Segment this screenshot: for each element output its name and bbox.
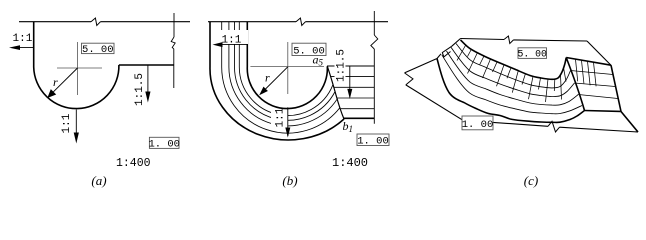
svg-text:(b): (b) <box>282 173 297 188</box>
svg-text:1:1: 1:1 <box>13 33 33 45</box>
svg-text:5. 00: 5. 00 <box>293 46 325 58</box>
svg-text:5. 00: 5. 00 <box>82 44 114 56</box>
svg-text:1:400: 1:400 <box>332 156 368 170</box>
svg-text:5. 00: 5. 00 <box>517 49 547 60</box>
svg-text:r: r <box>53 75 58 89</box>
svg-text:1:1: 1:1 <box>274 107 286 127</box>
svg-text:1:1.5: 1:1.5 <box>336 49 348 82</box>
svg-text:(c): (c) <box>524 173 538 188</box>
svg-text:1:1.5: 1:1.5 <box>134 73 146 106</box>
svg-text:1:400: 1:400 <box>116 157 151 170</box>
svg-text:1:1: 1:1 <box>61 113 73 133</box>
svg-text:1. 00: 1. 00 <box>148 139 180 151</box>
svg-text:r: r <box>265 71 270 85</box>
svg-text:(a): (a) <box>91 173 106 188</box>
svg-text:1. 00: 1. 00 <box>462 119 494 131</box>
svg-text:1. 00: 1. 00 <box>357 136 389 148</box>
